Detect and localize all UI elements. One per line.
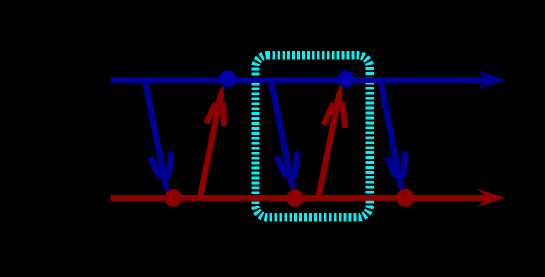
node red dot 2 — [286, 190, 303, 207]
arrow blue 3 right barb — [403, 151, 405, 176]
arrow red 2 head web — [331, 87, 343, 109]
dotted cyan highlight box — [255, 55, 369, 217]
red message arrows (upward) — [200, 86, 345, 198]
node dots on top timeline — [219, 70, 355, 87]
arrow red 2 left barb — [324, 103, 334, 125]
wire: bottom timeline shaft — [111, 195, 489, 201]
node red dot 3 — [396, 189, 414, 207]
wire: top timeline shaft — [111, 77, 489, 83]
top timeline arrowhead — [478, 71, 506, 89]
arrow blue 2 shaft — [271, 80, 292, 186]
arrow blue 3 shaft — [381, 80, 401, 186]
arrow blue 2 right barb — [295, 152, 298, 177]
arrow blue 1 head web — [157, 170, 169, 191]
arrow blue 1 taper tip — [162, 182, 169, 193]
arrow blue 2 left barb — [276, 157, 286, 177]
blue message arrows (downward) — [145, 80, 405, 193]
arrow blue 3 head web — [394, 170, 404, 191]
arrow blue 1 right barb — [169, 152, 172, 177]
arrow red 1 right barb — [223, 102, 224, 126]
arrow blue 2 taper tip — [288, 181, 295, 192]
arrow red 1 shaft — [200, 94, 221, 198]
arrow blue 1 shaft — [145, 80, 166, 186]
arrow red 1 head web — [213, 89, 223, 109]
bottom timeline (dark red) — [111, 189, 506, 207]
arrow blue 2 head web — [284, 170, 296, 191]
top timeline (blue) — [111, 71, 506, 89]
arrow red 1 left barb — [206, 103, 215, 123]
node dots on bottom timeline — [165, 189, 415, 207]
arrow blue 3 taper tip — [397, 181, 403, 192]
node blue dot 2 — [338, 70, 355, 87]
arrow blue 3 left barb — [387, 157, 395, 176]
bottom timeline arrowhead — [478, 189, 506, 207]
arrow red 1 taper tip — [217, 87, 224, 98]
arrow red 2 shaft — [318, 92, 339, 198]
node red dot 1 — [165, 189, 182, 206]
arrow red 2 taper tip — [336, 86, 343, 97]
arrow red 2 right barb — [342, 102, 345, 128]
arrow blue 1 left barb — [150, 157, 160, 177]
node blue dot 1 — [219, 70, 236, 87]
